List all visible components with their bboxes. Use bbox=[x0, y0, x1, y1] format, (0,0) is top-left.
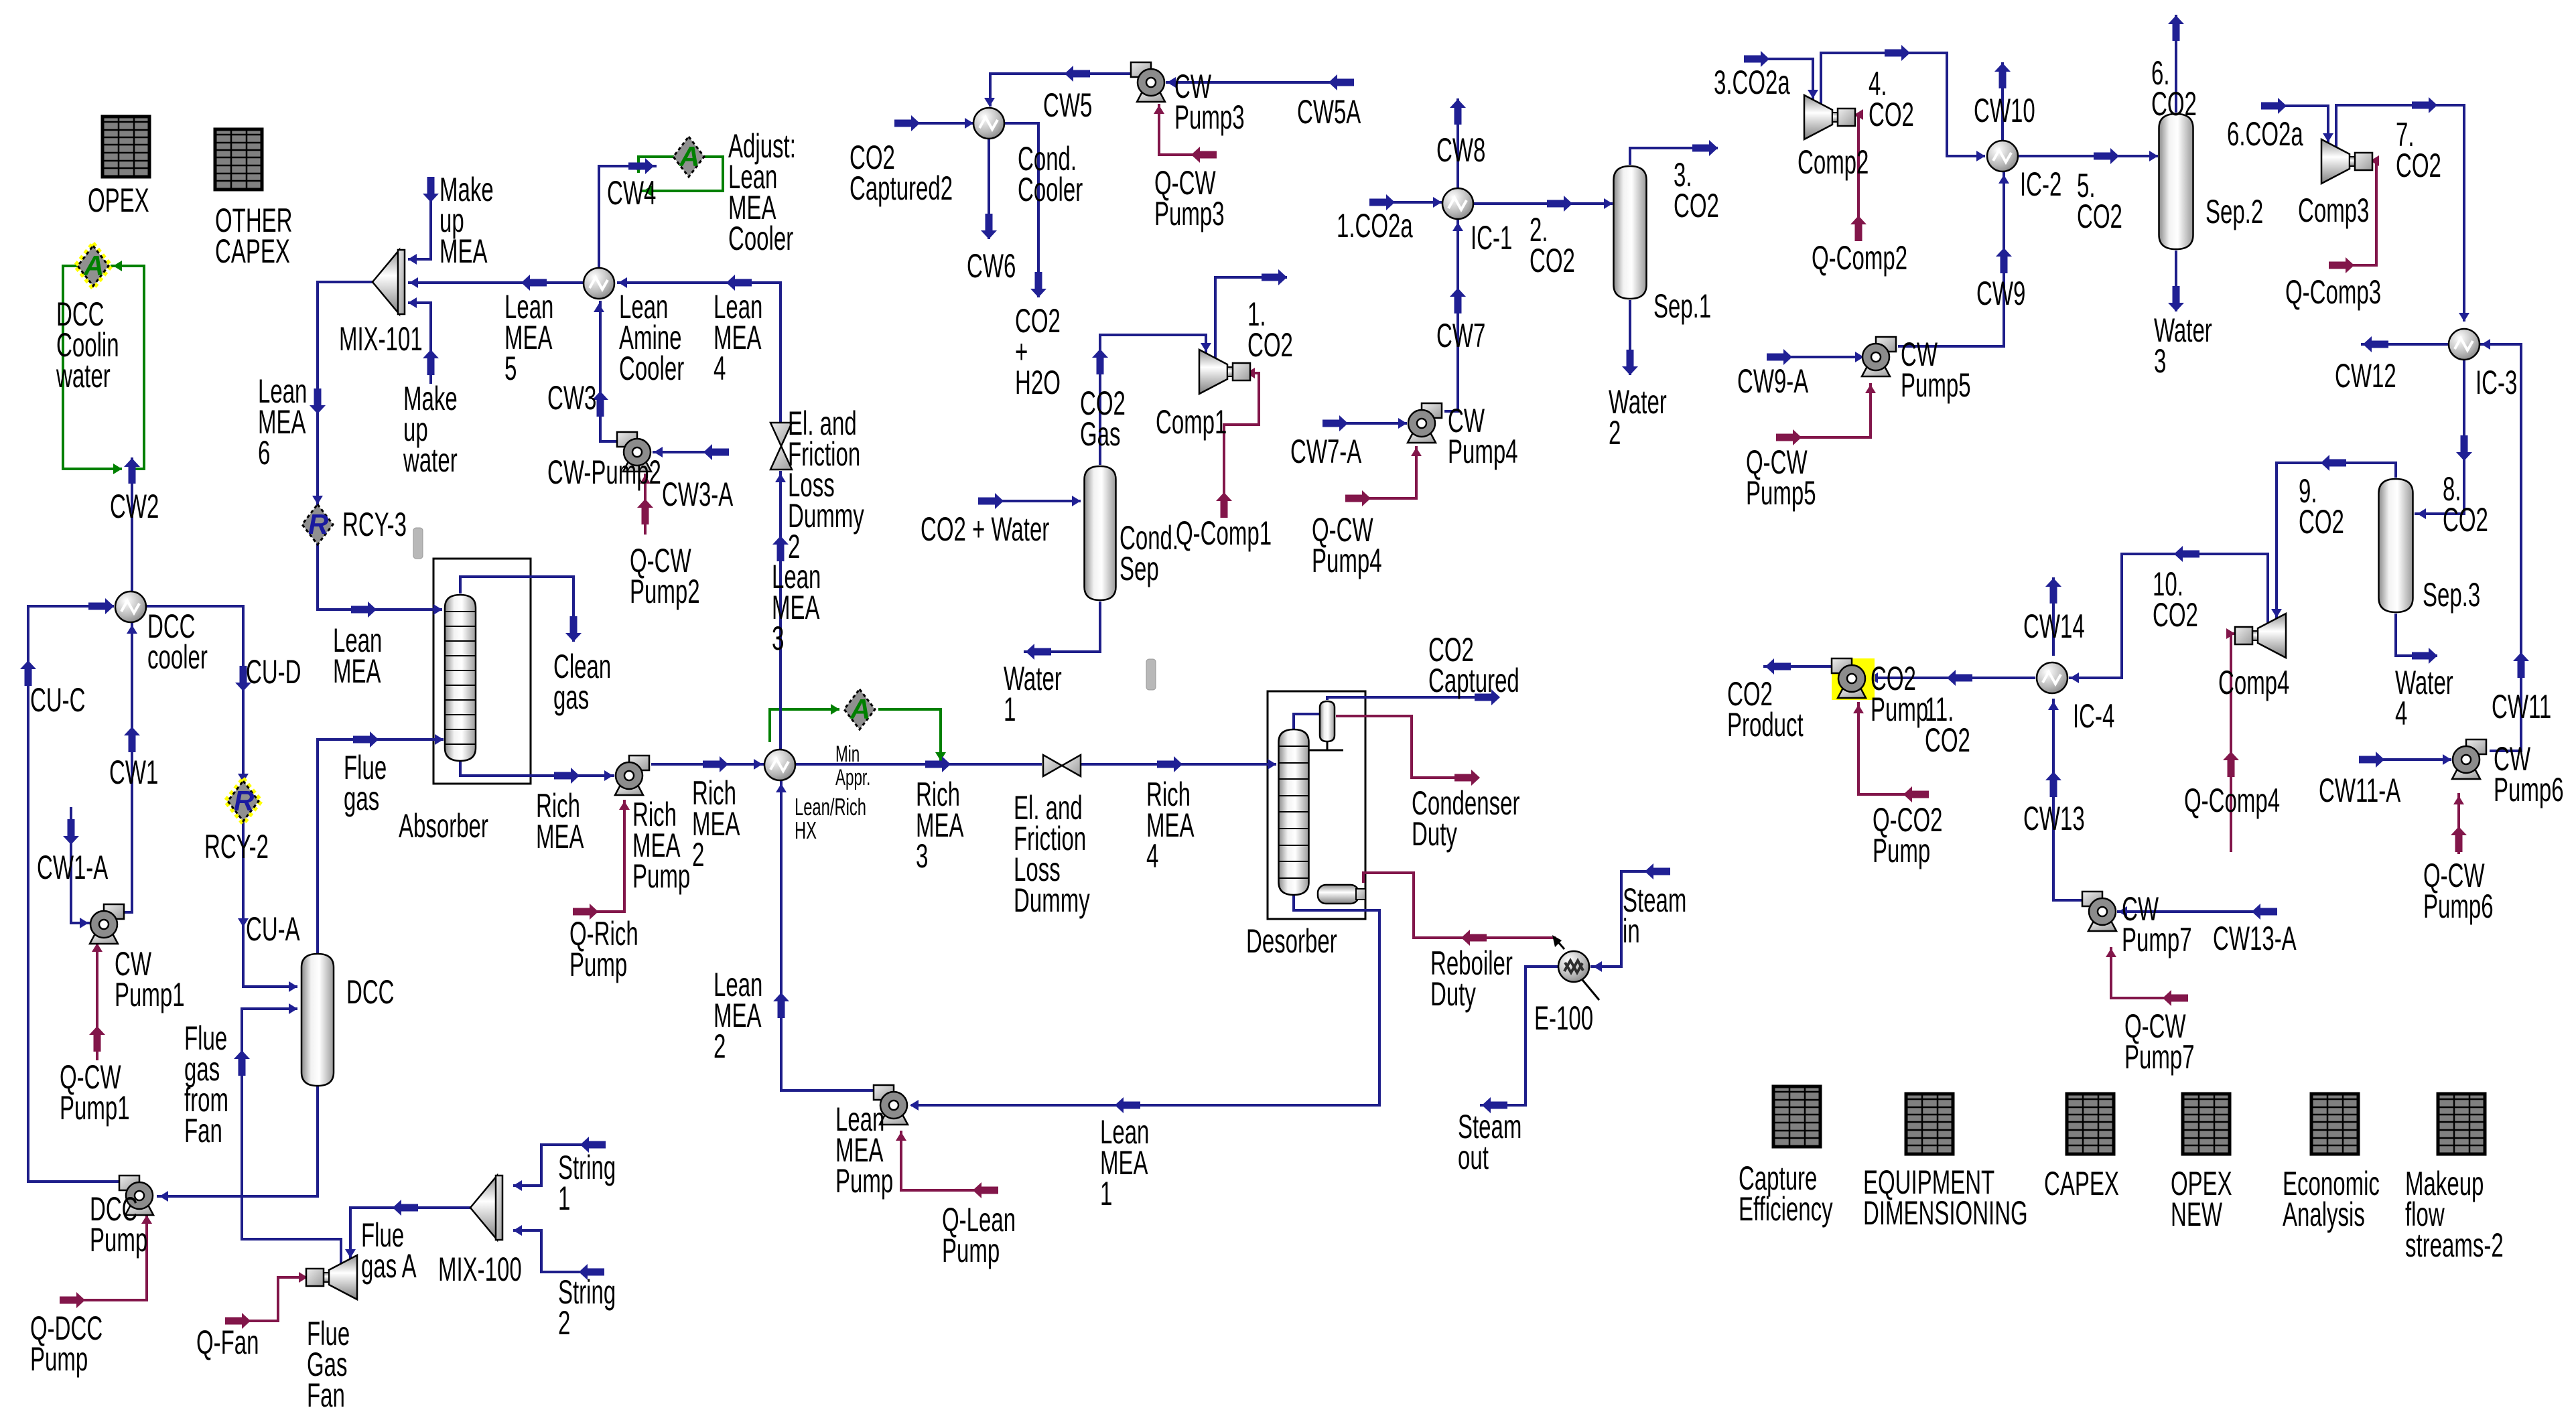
energy stream Q-Rich Pump bbox=[573, 800, 630, 920]
label DCC bbox=[346, 973, 395, 1011]
label Reboiler Duty bbox=[1430, 944, 1513, 1013]
label EQUIPMENT DIMENSIONING bbox=[1863, 1163, 2028, 1232]
stream CW11 bbox=[2480, 339, 2529, 751]
label Q-CW Pump4 bbox=[1312, 511, 1382, 579]
svg-text:Comp1: Comp1 bbox=[1156, 403, 1227, 441]
svg-text:in: in bbox=[1623, 912, 1640, 950]
label Water 3 bbox=[2154, 311, 2212, 380]
svg-text:Duty: Duty bbox=[1412, 815, 1457, 853]
stream CW3-A bbox=[653, 444, 729, 460]
label CO2 Gas bbox=[1080, 384, 1126, 453]
label Sep.1 bbox=[1653, 287, 1711, 325]
svg-text:Pump6: Pump6 bbox=[2423, 888, 2494, 925]
label MIX-101 bbox=[339, 320, 423, 358]
stream CW9-A bbox=[1767, 349, 1864, 365]
adjust block Adjust: Lean MEA Cooler bbox=[673, 137, 704, 177]
pump CW Pump1 bbox=[90, 904, 124, 944]
svg-text:IC-4: IC-4 bbox=[2073, 697, 2114, 735]
label Sep.3 bbox=[2423, 576, 2480, 614]
svg-text:6: 6 bbox=[258, 434, 270, 472]
label Q-Lean Pump bbox=[942, 1201, 1016, 1269]
stream Make up water bbox=[408, 297, 439, 384]
label Q-CW Pump3 bbox=[1154, 164, 1225, 232]
heat exchanger IC-4 bbox=[2037, 662, 2067, 693]
stream CO2 Captured2 bbox=[894, 115, 973, 131]
label Lean/Rich HX bbox=[795, 793, 866, 844]
label Absorber bbox=[399, 807, 488, 845]
stream 10. CO2 bbox=[2069, 546, 2268, 683]
stream CO2 Gas bbox=[1092, 335, 1211, 465]
energy stream Q-CW Pump6 bbox=[2451, 793, 2467, 854]
yellow selection highlight on CO2 Pump bbox=[1832, 658, 1875, 700]
svg-text:Pump1: Pump1 bbox=[60, 1089, 130, 1127]
label CO2 + Water bbox=[921, 510, 1049, 548]
svg-text:1.CO2a: 1.CO2a bbox=[1337, 207, 1413, 244]
svg-text:Q-Comp4: Q-Comp4 bbox=[2184, 782, 2280, 819]
stream CO2 + Water bbox=[978, 493, 1081, 509]
svg-text:CO2: CO2 bbox=[2153, 596, 2198, 634]
svg-text:Comp4: Comp4 bbox=[2218, 664, 2289, 701]
stream CW9 bbox=[1898, 172, 2012, 346]
label Lean MEA bbox=[333, 622, 382, 690]
green adjust line: CW4 loop to adjust A2 bbox=[640, 157, 723, 196]
svg-text:CW11: CW11 bbox=[2492, 688, 2551, 725]
stream Make up MEA bbox=[408, 177, 439, 265]
stream Flue gas (DCC to Absorber) bbox=[318, 731, 444, 954]
stream Rich MEA 2 bbox=[651, 756, 764, 772]
absorber sub-flowsheet boundary bbox=[433, 559, 531, 784]
valve El. and Friction Loss Dummy 2 bbox=[770, 423, 792, 470]
spreadsheet OPEX NEW bbox=[2183, 1094, 2230, 1154]
label 9. CO2 bbox=[2299, 472, 2344, 541]
label Flue gas from Fan bbox=[184, 1019, 228, 1149]
svg-text:R: R bbox=[308, 508, 329, 540]
stream CW2 bbox=[124, 457, 140, 591]
svg-text:CO2: CO2 bbox=[2299, 503, 2344, 541]
svg-text:OPEX: OPEX bbox=[88, 182, 149, 219]
svg-text:R: R bbox=[234, 785, 255, 817]
label Make up MEA bbox=[439, 171, 494, 270]
label CW7 bbox=[1436, 317, 1485, 354]
label CW9-A bbox=[1737, 362, 1809, 400]
label CAPEX bbox=[2044, 1165, 2119, 1202]
svg-text:CU-D: CU-D bbox=[246, 653, 301, 691]
heat exchanger Lean/Rich HX bbox=[764, 750, 795, 780]
label CW11 bbox=[2492, 688, 2551, 725]
label Lean MEA 2 bbox=[714, 966, 762, 1065]
svg-text:Comp3: Comp3 bbox=[2298, 192, 2369, 229]
label Lean MEA Pump bbox=[835, 1101, 893, 1200]
svg-text:4: 4 bbox=[2395, 695, 2407, 732]
label Lean MEA 6 bbox=[258, 372, 307, 472]
stream Rich MEA 4 bbox=[1081, 756, 1276, 772]
valve El. and Friction Loss Dummy bbox=[1043, 755, 1081, 776]
svg-text:5: 5 bbox=[504, 350, 517, 387]
svg-text:MEA: MEA bbox=[333, 652, 381, 690]
energy stream Q-Lean Pump bbox=[896, 1131, 998, 1198]
energy stream Q-CW Pump4 bbox=[1345, 446, 1422, 506]
svg-text:CW2: CW2 bbox=[110, 488, 159, 525]
svg-text:Pump5: Pump5 bbox=[1901, 366, 1971, 404]
stream Clean gas bbox=[460, 577, 582, 642]
stream 2. CO2 bbox=[1474, 196, 1613, 212]
mixer MIX-100 bbox=[470, 1176, 502, 1240]
svg-text:Pump7: Pump7 bbox=[2122, 921, 2192, 959]
stream 6. CO2 bbox=[2168, 15, 2184, 113]
pump CW Pump5 bbox=[1862, 337, 1896, 376]
label El. and Friction Loss Dummy 2 bbox=[788, 405, 864, 565]
stream desorber overhead to condenser bbox=[1294, 714, 1320, 729]
label String 1 bbox=[558, 1149, 616, 1217]
svg-text:E-100: E-100 bbox=[1534, 999, 1593, 1037]
stream 7. CO2 bbox=[2336, 97, 2469, 322]
recycle RCY-2 bbox=[225, 778, 261, 824]
label CW5A bbox=[1297, 93, 1361, 131]
svg-text:4: 4 bbox=[1146, 837, 1158, 875]
svg-text:Cooler: Cooler bbox=[1018, 171, 1083, 208]
stream 11. CO2 bbox=[1868, 670, 2035, 686]
energy stream Q-Comp2 bbox=[1850, 109, 1867, 241]
svg-text:Absorber: Absorber bbox=[399, 807, 488, 845]
stream CU-D bbox=[146, 606, 251, 784]
heater E-100 bbox=[1552, 935, 1599, 1000]
label CW Pump3 bbox=[1174, 68, 1245, 136]
svg-text:CW9: CW9 bbox=[1976, 275, 2025, 312]
svg-text:CW10: CW10 bbox=[1974, 92, 2035, 129]
label 11. CO2 bbox=[1925, 691, 1970, 759]
stream Lean MEA 3 bbox=[772, 471, 789, 749]
label MIX-100 bbox=[438, 1251, 522, 1288]
stream Steam in bbox=[1590, 863, 1670, 972]
stream CU-B bbox=[157, 1086, 318, 1202]
stream Water 2 bbox=[1622, 300, 1638, 375]
label Comp3 bbox=[2298, 192, 2369, 229]
label CO2 Captured bbox=[1428, 631, 1519, 699]
svg-text:Pump: Pump bbox=[835, 1162, 893, 1200]
label Lean MEA 3 bbox=[772, 558, 821, 657]
svg-text:Pump3: Pump3 bbox=[1174, 98, 1245, 136]
svg-text:CW3: CW3 bbox=[547, 379, 596, 417]
svg-text:Desorber: Desorber bbox=[1246, 922, 1337, 960]
svg-text:CW3-A: CW3-A bbox=[662, 476, 734, 513]
energy stream Q-CW Pump1 bbox=[89, 940, 105, 1060]
adjust block DCC Coolin water bbox=[75, 243, 111, 289]
svg-text:streams-2: streams-2 bbox=[2405, 1226, 2504, 1264]
energy stream Q-CW Pump3 bbox=[1154, 104, 1217, 163]
svg-text:2: 2 bbox=[558, 1304, 570, 1342]
svg-text:CW7: CW7 bbox=[1436, 317, 1485, 354]
heat exchanger Cond. Cooler bbox=[973, 108, 1004, 139]
compressor Comp2 bbox=[1804, 95, 1855, 139]
label CW3 bbox=[547, 379, 596, 417]
label Sep.2 bbox=[2206, 193, 2263, 230]
svg-text:gas: gas bbox=[344, 780, 379, 817]
label CW Pump1 bbox=[115, 945, 185, 1013]
stream CW6 bbox=[981, 139, 997, 239]
spreadsheet OPEX bbox=[103, 117, 149, 177]
label OTHER CAPEX bbox=[215, 202, 293, 270]
svg-text:CO2: CO2 bbox=[2077, 198, 2122, 235]
svg-text:4: 4 bbox=[714, 350, 726, 387]
compressor Comp3 bbox=[2321, 139, 2372, 184]
label 8. CO2 bbox=[2443, 470, 2488, 539]
label Flue gas bbox=[344, 749, 387, 817]
svg-text:IC-1: IC-1 bbox=[1471, 219, 1512, 257]
label CU-A bbox=[246, 910, 300, 948]
stream CW3 bbox=[592, 301, 621, 441]
label 3.CO2a bbox=[1714, 64, 1790, 101]
label DCC Pump bbox=[90, 1190, 147, 1259]
energy stream Q-Comp4 bbox=[2223, 628, 2239, 852]
label Min Appr. bbox=[835, 741, 870, 790]
svg-text:Gas: Gas bbox=[1080, 415, 1121, 453]
svg-text:CW14: CW14 bbox=[2023, 608, 2085, 645]
svg-text:CO2: CO2 bbox=[2396, 147, 2441, 184]
svg-text:MEA: MEA bbox=[439, 232, 488, 270]
spreadsheet Economic Analysis bbox=[2311, 1094, 2358, 1154]
svg-text:RCY-3: RCY-3 bbox=[342, 506, 407, 543]
stream Lean MEA 5 bbox=[408, 275, 584, 291]
stream Lean MEA bbox=[318, 543, 442, 618]
svg-text:CW1: CW1 bbox=[109, 754, 158, 791]
spreadsheet Capture Efficiency bbox=[1773, 1086, 1820, 1147]
spreadsheet CAPEX bbox=[2067, 1094, 2114, 1154]
label Rich MEA bbox=[536, 787, 584, 855]
svg-text:Fan: Fan bbox=[184, 1112, 222, 1149]
label Lean MEA 1 bbox=[1100, 1113, 1149, 1212]
stream Lean MEA 1 (desorber bottoms) bbox=[910, 895, 1379, 1113]
svg-text:A: A bbox=[679, 141, 699, 172]
stream 9. CO2 bbox=[2271, 455, 2396, 619]
label 6. CO2 bbox=[2151, 54, 2197, 123]
energy stream Q-CO2 Pump bbox=[1853, 702, 1929, 802]
label Rich MEA 4 bbox=[1146, 776, 1195, 875]
pump CO2 Pump bbox=[1832, 658, 1866, 698]
label Q-CW Pump6 bbox=[2423, 857, 2494, 925]
stream 3.CO2a bbox=[1744, 51, 1818, 100]
column DCC bbox=[301, 954, 334, 1086]
stream CW1 bbox=[123, 622, 140, 912]
stream CW5A bbox=[1166, 74, 1354, 90]
label 7. CO2 bbox=[2396, 116, 2441, 184]
svg-text:2: 2 bbox=[692, 836, 704, 873]
stream CW14 bbox=[2045, 577, 2061, 656]
svg-text:Pump3: Pump3 bbox=[1154, 195, 1225, 232]
label IC-4 bbox=[2073, 697, 2114, 735]
energy stream Reboiler Duty bbox=[1363, 873, 1556, 946]
pump CW Pump6 bbox=[2452, 739, 2486, 779]
svg-text:Q-Comp2: Q-Comp2 bbox=[1812, 239, 1907, 277]
svg-text:CU-A: CU-A bbox=[246, 910, 300, 948]
label Q-Rich Pump bbox=[569, 915, 638, 983]
svg-text:CW4: CW4 bbox=[607, 174, 656, 212]
green adjust line: Lean/Rich HX to Min Appr adjust bbox=[770, 704, 839, 742]
stream 3. CO2 bbox=[1630, 140, 1718, 165]
column Absorber bbox=[445, 595, 476, 761]
stream CW13 bbox=[2045, 699, 2083, 900]
label CW1-A bbox=[37, 849, 109, 886]
svg-text:Duty: Duty bbox=[1430, 975, 1476, 1013]
label Q-CW Pump1 bbox=[60, 1058, 130, 1127]
label OPEX NEW bbox=[2171, 1165, 2232, 1233]
svg-text:Cooler: Cooler bbox=[619, 350, 684, 387]
stream Water 3 bbox=[2168, 251, 2184, 311]
svg-text:CO2: CO2 bbox=[1869, 96, 1914, 133]
label Steam in bbox=[1623, 881, 1686, 950]
desorber sub-flowsheet boundary bbox=[1268, 691, 1365, 919]
stream CU-A bbox=[238, 819, 297, 992]
label CW2 bbox=[110, 488, 159, 525]
svg-text:Pump: Pump bbox=[1873, 832, 1930, 869]
label CW4 bbox=[607, 174, 656, 212]
svg-text:Fan: Fan bbox=[307, 1376, 345, 1414]
wire condenser reflux tie bbox=[1308, 741, 1343, 750]
svg-text:Captured2: Captured2 bbox=[850, 169, 953, 207]
label El. and Friction Loss Dummy bbox=[1014, 789, 1090, 919]
label Steam out bbox=[1458, 1108, 1521, 1176]
svg-text:CW1-A: CW1-A bbox=[37, 849, 109, 886]
label Clean gas bbox=[553, 648, 611, 716]
pump DCC Pump bbox=[119, 1176, 153, 1215]
label Q-CO2 Pump bbox=[1873, 801, 1943, 869]
label CW7-A bbox=[1290, 433, 1362, 470]
svg-text:Pump: Pump bbox=[1871, 691, 1928, 728]
pump CW Pump3 bbox=[1131, 62, 1165, 102]
label Q-CW Pump7 bbox=[2124, 1007, 2195, 1076]
energy stream Condenser Duty bbox=[1336, 716, 1480, 786]
label CW9 bbox=[1976, 275, 2025, 312]
label 10. CO2 bbox=[2153, 565, 2198, 634]
label CW Pump7 bbox=[2122, 890, 2192, 959]
svg-text:DIMENSIONING: DIMENSIONING bbox=[1863, 1194, 2028, 1232]
separator Sep.2 bbox=[2159, 114, 2193, 249]
energy stream Q-CW Pump7 bbox=[2106, 947, 2188, 1006]
label Q-CW Pump2 bbox=[630, 542, 700, 610]
label Water 2 bbox=[1609, 383, 1667, 451]
label Q-DCC Pump bbox=[30, 1309, 103, 1378]
label CW14 bbox=[2023, 608, 2085, 645]
mixer MIX-101 bbox=[372, 250, 405, 314]
label DCC Coolin water bbox=[56, 295, 119, 395]
label CO2 + H2O bbox=[1015, 302, 1061, 401]
pump Rich MEA Pump bbox=[615, 756, 649, 795]
label Cond. Sep bbox=[1120, 519, 1178, 587]
svg-text:Sep.1: Sep.1 bbox=[1653, 287, 1711, 325]
stream Lean MEA 4 bbox=[617, 275, 781, 422]
svg-text:3: 3 bbox=[916, 837, 928, 875]
stream Lean MEA 2 bbox=[773, 781, 874, 1090]
svg-text:water: water bbox=[403, 441, 457, 479]
label Q-Comp2 bbox=[1812, 239, 1907, 277]
heat exchanger IC-3 bbox=[2449, 329, 2480, 360]
energy stream Q-CW Pump2 bbox=[637, 474, 653, 535]
svg-text:Pump4: Pump4 bbox=[1448, 433, 1518, 470]
spreadsheet Makeup flow streams-2 bbox=[2438, 1094, 2485, 1154]
pump CW Pump4 bbox=[1408, 403, 1442, 443]
label Q-CW Pump5 bbox=[1746, 443, 1816, 512]
stream CO2 Product bbox=[1763, 658, 1834, 675]
svg-text:out: out bbox=[1458, 1139, 1489, 1176]
label CW12 bbox=[2335, 357, 2396, 395]
label CW13 bbox=[2023, 800, 2085, 837]
scrollbar artifact near RCY-3 bbox=[413, 528, 423, 559]
label Rich MEA Pump bbox=[632, 796, 690, 895]
label Adjust: Lean MEA Cooler bbox=[728, 127, 796, 257]
svg-text:CW6: CW6 bbox=[967, 247, 1016, 285]
label 2. CO2 bbox=[1530, 211, 1575, 279]
energy stream Q-Fan bbox=[225, 1272, 308, 1329]
svg-text:RCY-2: RCY-2 bbox=[204, 828, 269, 865]
label RCY-3 bbox=[342, 506, 407, 543]
svg-text:CW11-A: CW11-A bbox=[2319, 772, 2401, 809]
label Economic Analysis bbox=[2283, 1165, 2380, 1233]
label CU-C bbox=[30, 681, 86, 719]
svg-text:CW-Pump2: CW-Pump2 bbox=[547, 453, 661, 491]
svg-text:gas A: gas A bbox=[361, 1247, 417, 1285]
svg-text:Pump1: Pump1 bbox=[115, 976, 185, 1013]
svg-text:Sep.3: Sep.3 bbox=[2423, 576, 2480, 614]
stream 1.CO2a bbox=[1369, 194, 1442, 210]
svg-text:Pump2: Pump2 bbox=[630, 573, 700, 610]
stream 6.CO2a bbox=[2261, 98, 2333, 143]
svg-text:CO2 + Water: CO2 + Water bbox=[921, 510, 1049, 548]
stream CU-C bbox=[20, 598, 122, 1182]
svg-text:CO2: CO2 bbox=[2151, 85, 2197, 123]
stream Lean MEA 6 bbox=[310, 282, 372, 506]
label Cond. Cooler bbox=[1018, 140, 1083, 208]
label Rich MEA 3 bbox=[916, 776, 964, 875]
stream 1. CO2 bbox=[1215, 269, 1287, 358]
svg-text:CW7-A: CW7-A bbox=[1290, 433, 1362, 470]
stream CW12 bbox=[2361, 336, 2448, 352]
stream Flue gas from Fan bbox=[234, 1003, 341, 1265]
svg-text:A: A bbox=[83, 250, 104, 281]
label 4. CO2 bbox=[1869, 65, 1914, 133]
stream Steam out bbox=[1480, 967, 1558, 1113]
svg-text:MIX-100: MIX-100 bbox=[438, 1251, 522, 1288]
pump CW Pump7 bbox=[2082, 892, 2116, 931]
svg-text:Q-Fan: Q-Fan bbox=[196, 1324, 259, 1361]
label Lean MEA 4 bbox=[714, 288, 762, 387]
svg-text:CO2: CO2 bbox=[1530, 242, 1575, 279]
stream 5. CO2 bbox=[2019, 148, 2158, 164]
stream 8. CO2 bbox=[2415, 359, 2472, 519]
svg-text:CO2: CO2 bbox=[2443, 501, 2488, 539]
svg-text:CAPEX: CAPEX bbox=[215, 232, 290, 270]
svg-text:Pump6: Pump6 bbox=[2494, 771, 2564, 808]
svg-text:Pump: Pump bbox=[30, 1340, 88, 1378]
stream CW13-A bbox=[2117, 904, 2277, 920]
label CW13-A bbox=[2213, 920, 2297, 957]
svg-text:IC-2: IC-2 bbox=[2020, 165, 2061, 203]
label Flue gas A bbox=[361, 1216, 417, 1285]
label CO2 Captured2 bbox=[850, 139, 953, 207]
label Makeup flow streams-2 bbox=[2405, 1165, 2504, 1264]
label Water 4 bbox=[2395, 664, 2453, 732]
label CW5 bbox=[1043, 86, 1092, 124]
label Q-Fan bbox=[196, 1324, 259, 1361]
separator Sep.1 bbox=[1614, 166, 1647, 299]
stream Rich MEA bbox=[460, 761, 614, 784]
heat exchanger IC-2 bbox=[1987, 141, 2018, 171]
svg-text:Q-Comp3: Q-Comp3 bbox=[2285, 273, 2381, 311]
label CW Pump6 bbox=[2494, 740, 2564, 808]
pump CW-Pump2 bbox=[617, 432, 651, 472]
svg-text:Product: Product bbox=[1727, 706, 1804, 743]
svg-text:MIX-101: MIX-101 bbox=[339, 320, 423, 358]
svg-text:2: 2 bbox=[714, 1027, 726, 1065]
svg-text:CO2: CO2 bbox=[1674, 187, 1719, 224]
